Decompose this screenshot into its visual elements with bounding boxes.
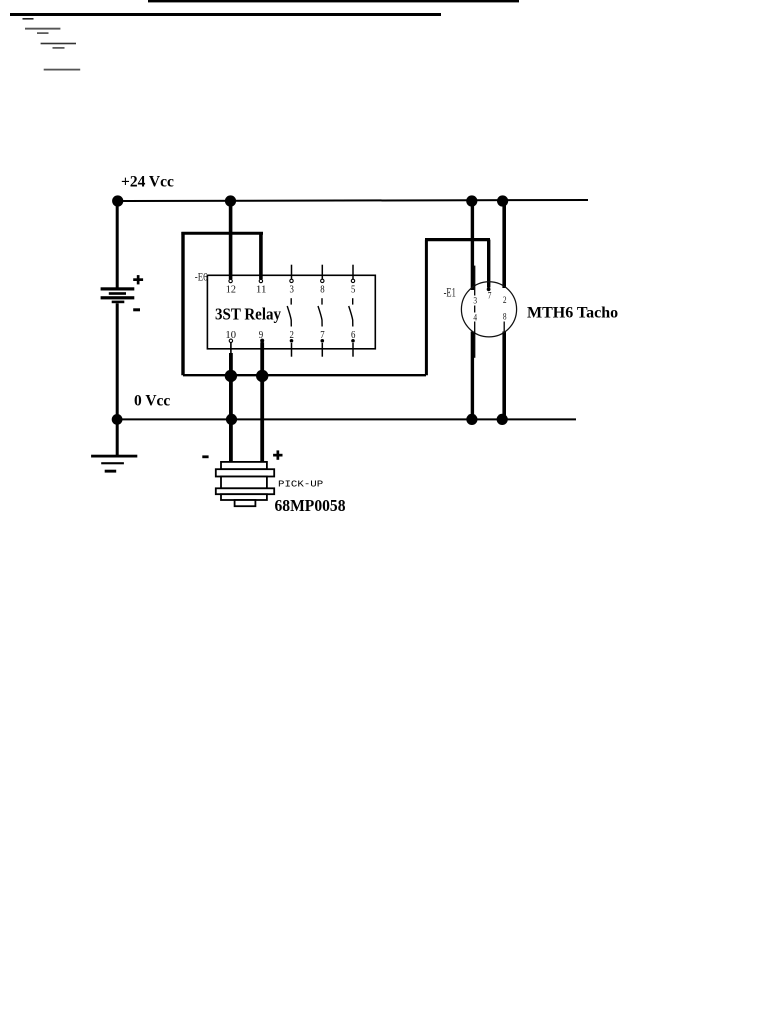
svg-text:-E1: -E1	[444, 285, 456, 299]
svg-text:MTH6 Tacho: MTH6 Tacho	[527, 305, 618, 322]
svg-text:12: 12	[226, 285, 236, 296]
svg-text:8: 8	[503, 312, 507, 322]
svg-text:0 Vcc: 0 Vcc	[134, 393, 170, 410]
svg-text:4: 4	[473, 312, 477, 322]
svg-text:3: 3	[473, 296, 477, 306]
svg-text:3: 3	[290, 285, 294, 296]
svg-text:5: 5	[351, 285, 355, 296]
svg-text:10: 10	[225, 330, 236, 341]
svg-text:2: 2	[503, 295, 507, 305]
svg-text:7: 7	[320, 330, 324, 341]
svg-text:8: 8	[320, 285, 324, 296]
svg-text:6: 6	[351, 330, 355, 341]
svg-text:3ST Relay: 3ST Relay	[215, 304, 282, 323]
svg-text:2: 2	[290, 330, 294, 341]
svg-text:11: 11	[256, 285, 267, 296]
svg-text:+24 Vcc: +24 Vcc	[121, 174, 174, 191]
svg-text:-E6: -E6	[195, 270, 208, 284]
svg-text:9: 9	[259, 330, 263, 341]
svg-text:7: 7	[488, 290, 492, 300]
svg-text:68MP0058: 68MP0058	[275, 496, 346, 515]
svg-text:PICK-UP: PICK-UP	[278, 478, 324, 489]
